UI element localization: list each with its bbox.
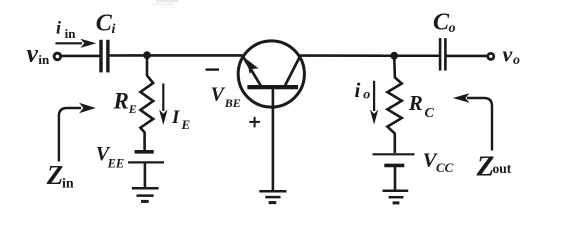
svg-text:BE: BE xyxy=(224,96,241,110)
svg-text:o: o xyxy=(513,53,520,68)
svg-text:R: R xyxy=(408,91,423,115)
svg-text:Z: Z xyxy=(46,160,64,190)
svg-text:EE: EE xyxy=(107,156,125,170)
svg-text:o: o xyxy=(449,21,456,36)
svg-text:i: i xyxy=(56,18,61,38)
svg-text:in: in xyxy=(38,52,50,67)
svg-text:E: E xyxy=(128,102,137,116)
svg-text:Z: Z xyxy=(476,150,495,182)
svg-text:C: C xyxy=(433,9,450,35)
svg-text:i: i xyxy=(355,78,361,102)
svg-text:V: V xyxy=(211,83,226,105)
svg-text:in: in xyxy=(65,26,77,41)
svg-text:o: o xyxy=(363,87,370,102)
svg-text:E: E xyxy=(181,117,191,132)
svg-text:v: v xyxy=(27,39,39,68)
svg-text:C: C xyxy=(96,10,113,36)
svg-text:R: R xyxy=(113,89,129,114)
svg-text:in: in xyxy=(62,176,74,191)
svg-text:I: I xyxy=(171,107,180,128)
svg-text:C: C xyxy=(425,106,435,121)
svg-text:CC: CC xyxy=(436,160,454,175)
svg-text:i: i xyxy=(112,22,116,37)
svg-text:out: out xyxy=(493,161,512,176)
svg-text:v: v xyxy=(503,42,513,67)
